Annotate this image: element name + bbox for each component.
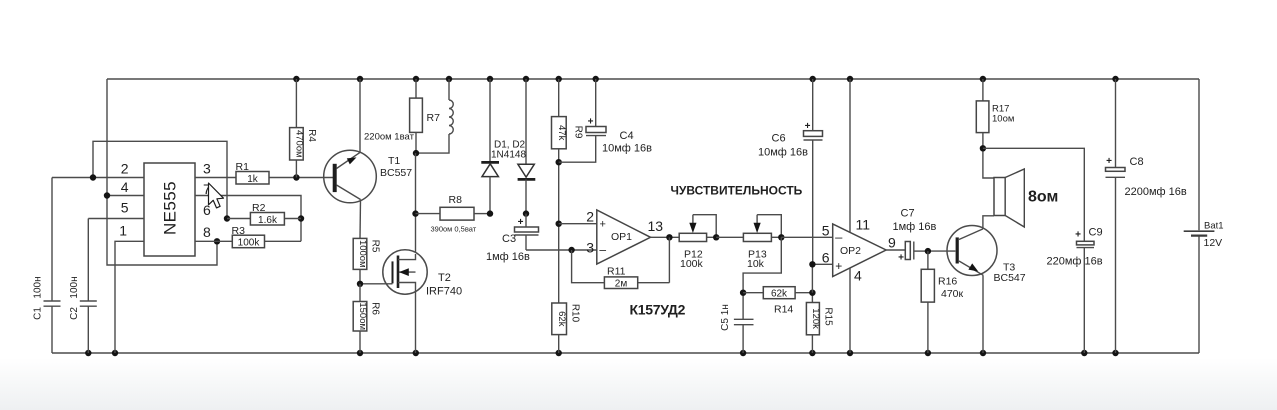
wire OP1 inverting input pin3 <box>526 247 597 253</box>
svg-text:1k: 1k <box>247 174 259 185</box>
svg-text:–: – <box>599 243 606 257</box>
wire OP2 pin11 to VCC <box>849 79 851 233</box>
svg-text:R2: R2 <box>252 202 266 214</box>
svg-text:BC547: BC547 <box>994 272 1026 284</box>
svg-text:OP2: OP2 <box>840 245 861 257</box>
wire pin7 discharge to R2 R3 right ends <box>195 196 304 242</box>
capacitor C9 220мф 16в <box>1047 227 1103 354</box>
svg-text:ЧУВСТВИТЕЛЬНОСТЬ: ЧУВСТВИТЕЛЬНОСТЬ <box>671 184 803 198</box>
svg-text:R9: R9 <box>573 126 584 139</box>
inductor search coil <box>413 79 453 156</box>
diode D1 1N4148 <box>481 79 499 217</box>
resistor R8 390ом 0,5ват <box>416 194 491 234</box>
svg-text:5: 5 <box>121 200 129 216</box>
svg-text:470к: 470к <box>941 288 964 300</box>
wire T2 source to ground <box>415 290 417 353</box>
label D1 D2 1N4148 <box>491 140 526 161</box>
resistor R1 1k <box>195 161 296 185</box>
wire VCC top supply rail <box>107 78 1199 80</box>
svg-text:+: + <box>805 121 811 132</box>
svg-text:10ом: 10ом <box>992 114 1014 125</box>
resistor R6 150ом <box>353 284 380 353</box>
resistor R11 2м feedback <box>572 237 670 289</box>
wire R9 R10 divider column <box>556 149 562 303</box>
capacitor C2 100н <box>69 219 97 354</box>
svg-text:R14: R14 <box>774 304 793 316</box>
svg-text:+: + <box>898 253 904 264</box>
svg-text:47k: 47k <box>556 125 567 141</box>
svg-text:62k: 62k <box>771 289 788 300</box>
svg-text:8ом: 8ом <box>1028 189 1058 206</box>
svg-text:R3: R3 <box>232 225 246 237</box>
svg-text:1: 1 <box>119 223 127 239</box>
capacitor C6 10мф 16в <box>758 79 823 264</box>
transistor T3 BC547 <box>947 226 1026 284</box>
mouse cursor <box>209 183 224 208</box>
svg-text:2: 2 <box>121 161 129 177</box>
svg-text:C1: C1 <box>33 307 44 320</box>
wire pin8 stub <box>195 240 232 242</box>
wire pin2 trigger node and loop to pin6 <box>52 141 230 221</box>
svg-text:+: + <box>1106 156 1112 167</box>
svg-text:6: 6 <box>203 202 211 218</box>
svg-text:100k: 100k <box>680 258 704 270</box>
svg-text:T2: T2 <box>438 272 451 284</box>
resistor R15 120k <box>806 290 833 354</box>
potentiometer P13 10k <box>716 215 784 270</box>
svg-text:150ом: 150ом <box>357 302 368 330</box>
svg-text:100н: 100н <box>33 276 44 298</box>
svg-text:100ом: 100ом <box>357 240 368 268</box>
svg-text:4: 4 <box>121 179 129 195</box>
transistor T2 IRF740 mosfet <box>383 250 462 298</box>
wire speaker node to C9 <box>983 148 1084 241</box>
wire T1 emitter to VCC <box>359 79 361 152</box>
resistor R16 470к <box>921 251 963 353</box>
svg-text:C8: C8 <box>1130 156 1144 168</box>
svg-text:К157УД2: К157УД2 <box>630 302 686 318</box>
OP2 pin labels 5 6 11 4 9 <box>822 217 896 284</box>
diode D2 1N4148 <box>518 79 536 217</box>
svg-text:+: + <box>835 259 842 273</box>
svg-text:8: 8 <box>203 224 211 240</box>
label ЧУВСТВИТЕЛЬНОСТЬ <box>671 184 803 198</box>
value label 220ом 1ват for R7 <box>364 132 415 143</box>
svg-text:11: 11 <box>856 217 871 233</box>
wire pin1 to ground <box>115 241 144 353</box>
resistor R17 10ом <box>976 79 1014 152</box>
svg-text:BC557: BC557 <box>380 167 412 179</box>
capacitor C3 1мф 16в <box>486 214 539 263</box>
wire OP1 output node <box>651 234 680 240</box>
svg-text:3: 3 <box>203 161 211 177</box>
svg-text:C6: C6 <box>772 133 786 145</box>
wire ground bottom rail <box>52 352 1199 354</box>
transistor T1 BC557 <box>324 150 413 203</box>
speaker 8ом <box>983 148 1058 227</box>
capacitor C8 2200мф 16в <box>1106 79 1187 353</box>
svg-text:470ом: 470ом <box>293 130 304 158</box>
resistor R3 100k <box>232 225 302 248</box>
wire pin5 to C2 <box>88 218 144 220</box>
wire OP2 output to C7 <box>886 249 905 251</box>
svg-text:1N4148: 1N4148 <box>491 150 526 161</box>
label К157УД2 <box>630 302 686 318</box>
svg-text:NE555: NE555 <box>161 181 180 235</box>
svg-text:R1: R1 <box>236 161 250 173</box>
capacitor C4 10мф 16в <box>559 79 652 162</box>
battery Bat1 12V <box>1184 79 1224 353</box>
OP1 pin labels 2 3 13 <box>586 209 663 256</box>
svg-text:390ом 0,5ват: 390ом 0,5ват <box>431 225 477 234</box>
svg-text:IRF740: IRF740 <box>426 286 462 298</box>
junction dots on VCC rail <box>293 76 1119 82</box>
svg-text:1.6k: 1.6k <box>258 215 278 226</box>
svg-text:+: + <box>518 217 524 228</box>
svg-text:10мф 16в: 10мф 16в <box>758 147 808 159</box>
svg-text:OP1: OP1 <box>611 231 632 243</box>
wire T1 collector to R5 <box>359 200 362 239</box>
svg-text:R8: R8 <box>449 194 463 206</box>
svg-text:R4: R4 <box>306 129 317 142</box>
svg-text:C3: C3 <box>502 233 516 245</box>
svg-text:R7: R7 <box>427 112 441 124</box>
svg-text:220мф 16в: 220мф 16в <box>1047 256 1103 268</box>
svg-text:T1: T1 <box>388 155 400 167</box>
svg-text:6: 6 <box>822 250 830 266</box>
svg-text:100k: 100k <box>238 237 261 248</box>
resistor R5 100ом <box>353 238 380 283</box>
resistor R14 62k <box>743 287 812 316</box>
svg-text:R15: R15 <box>823 307 834 326</box>
capacitor C7 1мф 16в <box>893 208 937 264</box>
svg-text:C9: C9 <box>1089 227 1103 239</box>
wire pin4 reset to VCC and loop to pin8 <box>104 79 220 265</box>
wire OP2 pin4 to ground <box>849 268 851 353</box>
wire T3 collector to speaker <box>983 216 994 229</box>
svg-text:4: 4 <box>854 268 862 284</box>
resistor R10 62k <box>552 303 581 353</box>
op-amp OP2 <box>833 224 886 277</box>
wire node R1 R4 to T1 base <box>293 174 333 180</box>
svg-text:+: + <box>1075 229 1081 240</box>
wire P13 to OP2 pin5 <box>781 236 832 238</box>
wire OP2 inverting input pin6 node <box>809 261 833 293</box>
svg-text:62k: 62k <box>556 311 567 327</box>
svg-text:2м: 2м <box>615 279 628 290</box>
svg-text:C5 1н: C5 1н <box>720 304 731 331</box>
svg-text:2: 2 <box>586 209 594 225</box>
svg-text:Bat1: Bat1 <box>1204 220 1224 231</box>
resistor R9 47k <box>552 79 584 149</box>
svg-text:9: 9 <box>888 235 896 251</box>
svg-text:5: 5 <box>822 223 830 239</box>
NE555 pin labels right 3 7 6 8 <box>203 161 211 241</box>
resistor R7 <box>410 79 440 153</box>
svg-text:10мф 16в: 10мф 16в <box>602 143 652 155</box>
svg-text:1мф 16в: 1мф 16в <box>486 251 530 263</box>
capacitor C5 1н <box>720 290 754 354</box>
resistor R2 1.6k <box>227 202 301 226</box>
potentiometer P12 100k <box>679 215 719 270</box>
wire drain column R7 to T2 <box>412 153 418 252</box>
wire T3 emitter to ground <box>982 275 984 353</box>
svg-text:C2: C2 <box>69 307 80 320</box>
svg-text:1мф 16в: 1мф 16в <box>893 221 937 233</box>
op-amp OP1 <box>597 210 651 264</box>
resistor R4 470ом <box>290 79 317 178</box>
svg-text:120k: 120k <box>810 308 821 329</box>
svg-text:C4: C4 <box>620 130 634 142</box>
svg-text:R5: R5 <box>370 240 381 253</box>
svg-text:R11: R11 <box>607 266 626 278</box>
wire T2 gate node <box>357 281 393 287</box>
svg-text:100н: 100н <box>69 276 80 298</box>
svg-text:220ом 1ват: 220ом 1ват <box>364 132 415 143</box>
wire P13 node down to C5 R14 <box>743 237 781 292</box>
svg-text:3: 3 <box>586 240 594 256</box>
IC NE555 <box>144 163 195 256</box>
svg-text:+: + <box>599 218 605 230</box>
svg-text:10k: 10k <box>747 258 765 270</box>
svg-text:R6: R6 <box>370 302 381 315</box>
svg-text:+: + <box>588 117 594 128</box>
capacitor C1 100н <box>33 178 61 354</box>
svg-text:R10: R10 <box>570 304 581 323</box>
wire T3 base node <box>925 248 956 254</box>
svg-text:12V: 12V <box>1204 237 1223 249</box>
svg-text:C7: C7 <box>901 208 915 220</box>
svg-text:13: 13 <box>648 218 664 234</box>
svg-text:–: – <box>835 230 843 245</box>
NE555 pin labels left 2 4 5 1 <box>119 161 129 239</box>
wire OP1 non-inverting input pin2 <box>559 223 597 225</box>
svg-text:2200мф 16в: 2200мф 16в <box>1125 186 1187 198</box>
svg-text:R16: R16 <box>938 276 957 288</box>
junction dots on ground rail <box>85 350 1119 356</box>
